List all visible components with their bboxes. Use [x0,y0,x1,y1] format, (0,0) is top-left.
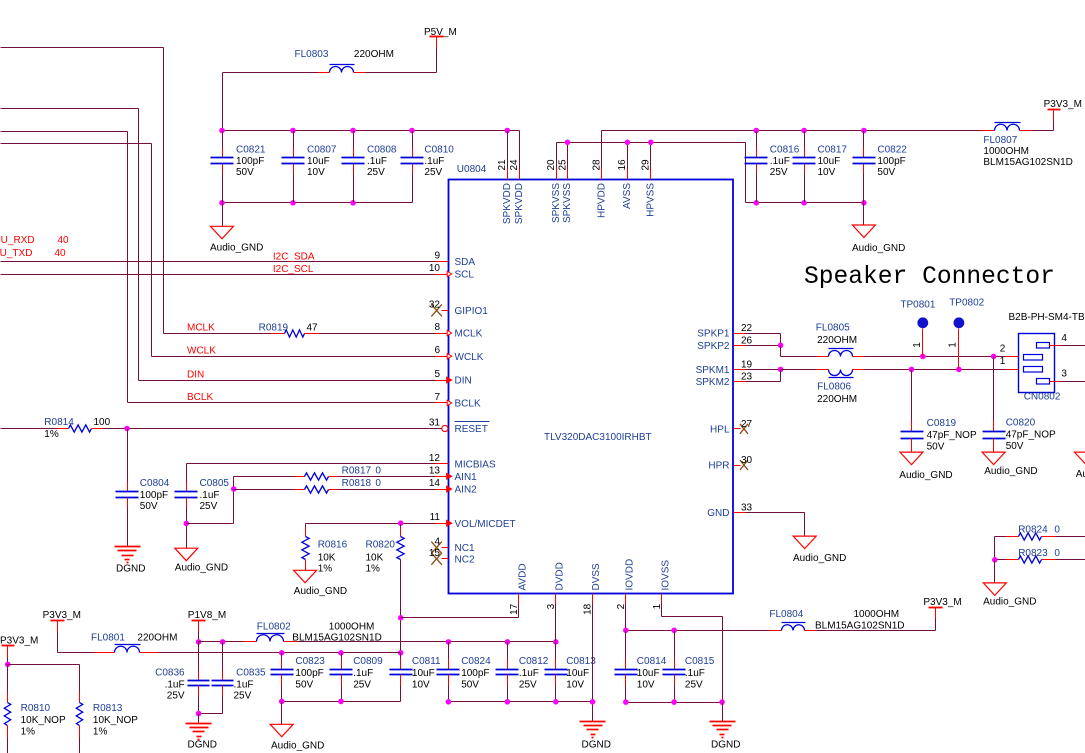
svg-text:24: 24 [509,159,520,171]
wire DIN [139,380,436,382]
svg-text:Audio_GND: Audio_GND [210,242,263,253]
svg-text:I2C_SDA: I2C_SDA [273,252,315,263]
wire MCLK to R0819 [164,333,285,335]
svg-text:40: 40 [55,248,67,259]
capacitor C0805 [175,478,230,549]
wire AVDD cap ground bus [279,699,401,725]
svg-text:.1uF: .1uF [234,679,254,690]
resistor R0819 47 [259,323,318,338]
svg-text:Audio_GND: Audio_GND [852,243,905,254]
svg-text:25: 25 [557,159,568,171]
pin 31 RESET (U0804 left) [429,418,490,436]
pin 2 IOVDD (U0804 bottom) [616,559,635,610]
svg-text:HPL: HPL [710,424,730,435]
ground DGND (IOVSS) [710,722,741,751]
svg-text:10V: 10V [412,680,430,691]
ferrite bead FL0801 [91,633,177,653]
svg-text:C0822: C0822 [877,145,907,156]
svg-text:TLV320DAC3100IRHBT: TLV320DAC3100IRHBT [544,432,652,443]
svg-text:1000OHM: 1000OHM [854,609,900,620]
power symbol P3V3_M (top right) [1044,99,1082,122]
capacitor C0822 [853,131,908,203]
svg-text:10K: 10K [366,553,384,564]
svg-text:C0804: C0804 [140,478,170,489]
svg-text:R0817: R0817 [342,466,372,477]
svg-text:SDA: SDA [455,257,476,268]
svg-text:R0818: R0818 [342,478,372,489]
ground Audio_GND (pin 33) [793,536,846,564]
svg-text:FL0804: FL0804 [769,609,803,620]
pin 32 GIPIO1 (U0804 left) [429,299,488,317]
svg-text:SPKM1: SPKM1 [696,365,730,376]
svg-text:100pF: 100pF [236,156,264,167]
svg-text:P3V3_M: P3V3_M [43,610,81,621]
svg-text:C0813: C0813 [566,656,596,667]
svg-text:1: 1 [912,342,923,348]
junction dots VSS rail [565,140,654,146]
net label DIN [187,369,204,380]
wire IOVSS pin 1 routing [662,604,723,703]
pin 19 SPKM1 (U0804 right) [696,359,753,376]
svg-text:32: 32 [429,299,441,310]
svg-text:R0823: R0823 [1018,548,1048,559]
capacitor C0810 [401,131,455,203]
svg-text:25V: 25V [200,501,218,512]
wire MICBIAS [187,464,436,482]
wire DVDD 1V8 rail [284,639,559,645]
wire P5V rail [223,73,437,131]
pin 13 AIN1 (U0804 left) [429,465,477,483]
svg-text:FL0803: FL0803 [295,49,329,60]
svg-text:23: 23 [741,372,753,383]
wire MCLK from off-page [1,48,164,334]
svg-text:50V: 50V [140,501,158,512]
wire P1V8 to FL0802 [196,632,257,645]
svg-text:FL0801: FL0801 [91,633,125,644]
wire AIN2 left [234,489,305,491]
wire P3V3 to FL0801 [58,632,115,653]
svg-text:WCLK: WCLK [187,346,216,357]
svg-text:GIPIO1: GIPIO1 [455,306,489,317]
svg-text:1000OHM: 1000OHM [329,622,375,633]
svg-text:FL0805: FL0805 [816,323,850,334]
svg-text:Audio_GND: Audio_GND [271,740,324,751]
svg-text:25V: 25V [353,680,371,691]
svg-text:30: 30 [741,455,753,466]
svg-text:R0824: R0824 [1018,525,1048,536]
svg-text:19: 19 [741,359,753,370]
svg-text:C0812: C0812 [519,656,549,667]
pin 20 SPKVSS (U0804 top) [546,143,562,224]
capacitor C0819 47pF_NOP [901,370,977,453]
svg-text:MCLK: MCLK [455,329,483,340]
wire FL0807 to P3V3_M [1032,122,1054,131]
op-amp U0804 TLV320DAC3100IRHBT body [449,164,734,594]
svg-text:50V: 50V [461,680,479,691]
resistor R0818 0 [305,478,382,493]
svg-text:SPKP1: SPKP1 [697,329,730,340]
wire DVSS pin 18 lead [592,604,594,722]
ground Audio_GND (C0805) [175,548,228,573]
svg-text:SPKP2: SPKP2 [697,341,730,352]
svg-text:C0817: C0817 [818,145,848,156]
wire AIN1 left [234,476,305,478]
pin 24 SPKVDD (U0804 top) [509,131,525,225]
svg-text:DVSS: DVSS [591,563,602,591]
svg-text:220OHM: 220OHM [137,633,177,644]
svg-text:C0819: C0819 [927,418,957,429]
svg-text:220OHM: 220OHM [817,335,857,346]
wire AVDD pin 17 routing [401,604,519,618]
wire C0836/C0835 ground bus [196,711,223,724]
pin 4 CN0802 wire [1050,333,1085,346]
capacitor C0835 [212,642,267,714]
svg-text:HPR: HPR [708,461,729,472]
svg-text:RESET: RESET [455,424,488,435]
svg-text:DVDD: DVDD [554,562,565,590]
resistor R0817 0 [305,466,382,481]
wire AVDD 3V3 rail [140,650,401,656]
svg-text:.1uF: .1uF [519,668,539,679]
power symbol P1V8_M [188,610,226,632]
pin 18 DVSS (U0804 bottom) [583,563,602,615]
svg-text:100pF: 100pF [140,490,168,501]
ground Audio_GND (R0816) [294,570,348,597]
wire R0817 to pin 13 [329,476,436,478]
svg-text:29: 29 [641,159,652,171]
svg-text:47pF_NOP: 47pF_NOP [1006,429,1056,440]
svg-text:GND: GND [707,508,729,519]
svg-text:C0807: C0807 [307,145,337,156]
svg-text:15: 15 [429,548,441,559]
svg-text:20: 20 [546,159,557,171]
svg-text:10K_NOP: 10K_NOP [93,715,138,726]
pin 16 AVSS (U0804 top) [617,143,633,209]
wire R0824 net [995,537,1085,560]
capacitor C0804 [116,429,170,547]
svg-text:C0824: C0824 [461,656,491,667]
svg-text:C0823: C0823 [295,656,325,667]
svg-text:C0815: C0815 [685,656,715,667]
wire WCLK [152,356,436,358]
wire R0819 to pin 8 [305,333,436,335]
wire DVDD pin 3 lead [555,604,557,642]
pin 15 NC2 (U0804 left) [429,548,475,566]
svg-text:R0810: R0810 [21,703,51,714]
wire WCLK from off-page [1,144,152,357]
svg-text:P1V8_M: P1V8_M [188,610,226,621]
wire R0814 to pin 31 [92,426,442,432]
wire VOL/MICDET [306,520,436,536]
capacitor C0817 [793,131,848,203]
svg-text:25V: 25V [519,680,537,691]
svg-text:R0814: R0814 [44,417,74,428]
svg-text:47pF_NOP: 47pF_NOP [927,430,977,441]
capacitor C0816 [745,131,800,203]
svg-text:BLM15AG102SN1D: BLM15AG102SN1D [815,620,905,631]
resistor R0814 100 1% [44,417,110,440]
capacitor C0813 [545,642,597,702]
wire FL0804 to P3V3_M [817,619,936,631]
svg-text:HPVDD: HPVDD [596,183,607,218]
svg-text:16: 16 [617,159,628,171]
pin 26 SPKP2 (U0804 right) [697,335,752,352]
resistor R0810 10K_NOP 1% [4,692,66,753]
resistor R0820 10K 1% [366,537,405,575]
svg-text:25V: 25V [424,167,442,178]
svg-text:AVDD: AVDD [518,563,529,590]
svg-text:AVSS: AVSS [622,183,633,209]
capacitor C0811 [390,653,442,702]
resistor R0813 10K_NOP 1% [76,692,138,753]
pin 14 AIN2 (U0804 left) [429,478,477,496]
svg-text:25V: 25V [685,680,703,691]
capacitor C0824 [437,642,492,702]
svg-text:.1uF: .1uF [424,156,444,167]
capacitor C0812 [496,642,549,702]
capacitor C0807 [282,131,337,203]
ferrite bead FL0802 [257,622,382,644]
pin 7 BCLK (U0804 left) [434,392,481,410]
svg-text:27: 27 [741,419,753,430]
svg-text:12: 12 [429,453,441,464]
net label CPU_RXD [0,235,69,246]
svg-text:R0816: R0816 [318,539,348,550]
power symbol P3V3_M (bottom) [923,597,961,619]
wire GND pin 33 routing [746,513,805,537]
capacitor C0809 [330,653,384,702]
svg-text:U0804: U0804 [457,164,487,175]
pin 17 AVDD (U0804 bottom) [509,563,528,614]
svg-text:10V: 10V [566,680,584,691]
wire BCLK [128,402,436,404]
svg-text:.1uF: .1uF [200,490,220,501]
svg-text:0: 0 [375,478,381,489]
ferrite bead FL0807 [981,123,1073,169]
svg-text:10V: 10V [818,167,836,178]
net label MCLK [187,323,215,334]
wire SPKVDD bottom rail [223,202,413,204]
capacitor C0814 [615,631,667,703]
pin 3 CN0802 wire [1050,369,1085,382]
svg-text:SPKVDD: SPKVDD [502,183,513,224]
svg-text:P3V3_M: P3V3_M [923,597,961,608]
svg-text:21: 21 [497,159,508,171]
wire DGND bus (DVDD caps) [446,699,596,705]
svg-text:SPKM2: SPKM2 [696,377,730,388]
svg-text:P3V3_M: P3V3_M [1044,99,1082,110]
wire I2C_SDA [1,252,436,263]
connector CN0802 B2B-PH-SM4-TBT [1009,312,1085,403]
capacitor C0820 47pF_NOP [983,357,1057,453]
svg-text:AIN2: AIN2 [455,485,478,496]
svg-text:33: 33 [741,503,753,514]
pin 27 HPL (U0804 right) [710,419,753,436]
svg-text:10K_NOP: 10K_NOP [21,715,66,726]
svg-text:10V: 10V [307,167,325,178]
svg-text:Audio_GND: Audio_GND [899,470,952,481]
svg-text:FL0802: FL0802 [257,622,291,633]
power symbol P3V3_M (FL0801) [43,610,81,632]
pin 1 IOVSS (U0804 bottom) [652,560,671,610]
ground Audio_GND (C0819) [899,452,952,481]
pin 22 SPKP1 (U0804 right) [697,323,752,340]
pin 11 VOL/MICDET (U0804 left) [430,512,516,530]
svg-text:DGND: DGND [582,740,611,751]
svg-text:1: 1 [947,342,958,348]
pin 3 DVDD (U0804 bottom) [546,562,565,609]
svg-text:C0821: C0821 [236,145,266,156]
pin 33 GND (U0804 right) [707,503,752,520]
svg-text:47: 47 [307,323,319,334]
test point TP0802 [947,298,984,370]
capacitor C0821 [211,131,266,203]
power symbol P3V3_M (far left) [0,636,38,658]
svg-text:10V: 10V [637,680,655,691]
svg-text:.1uF: .1uF [353,668,373,679]
svg-text:BCLK: BCLK [455,399,481,410]
svg-text:40: 40 [58,235,70,246]
svg-text:10uF: 10uF [566,668,589,679]
ground Audio_GND (right cap bank) [852,203,905,255]
ferrite bead FL0806 [817,370,865,406]
wire HPVDD rail [602,130,981,132]
svg-text:FL0806: FL0806 [817,382,851,393]
svg-text:VOL/MICDET: VOL/MICDET [455,519,516,530]
svg-text:DGND: DGND [711,740,740,751]
wire R0823 net [992,557,1085,583]
resistor R0816 10K 1% [302,537,348,575]
wire BCLK from off-page [1,132,128,403]
svg-text:1: 1 [1000,356,1006,367]
wire RESET from off-page [1,428,69,430]
svg-text:IOVSS: IOVSS [661,560,672,591]
ground DGND (C0836) [186,724,217,751]
net label WCLK [187,346,216,357]
svg-text:AIN1: AIN1 [455,472,478,483]
svg-text:.1uF: .1uF [165,679,185,690]
wire P3V3 left branch [5,658,80,692]
svg-text:Audio_GND: Audio_GND [793,553,846,564]
svg-text:0: 0 [1054,548,1060,559]
svg-text:C0820: C0820 [1006,418,1036,429]
pin 25 SPKVSS (U0804 top) [557,143,573,224]
svg-text:10uF: 10uF [637,668,660,679]
ground Audio_GND (R0823/R0824) [983,583,1036,607]
svg-text:Audio_GND: Audio_GND [983,596,1036,607]
svg-text:Speaker Connector: Speaker Connector [804,264,1055,291]
wire AIN branch [187,477,237,524]
pin 30 HPR (U0804 right) [708,455,752,472]
pin 12 MICBIAS (U0804 left) [429,453,496,471]
svg-text:28: 28 [592,159,603,171]
wire right cap bottom rail [746,202,864,204]
svg-text:SPKVSS: SPKVSS [551,183,562,223]
svg-text:CN0802: CN0802 [1024,392,1061,403]
svg-text:.1uF: .1uF [770,156,790,167]
pin 21 SPKVDD (U0804 top) [497,131,513,225]
resistor R0824 0 [1018,525,1060,540]
ferrite bead FL0803 [295,49,394,73]
test point TP0801 [900,300,935,357]
svg-text:10uF: 10uF [412,668,435,679]
ground Audio_GND (right edge, clipped) [1075,452,1085,480]
svg-text:C0816: C0816 [770,145,800,156]
svg-text:0: 0 [375,466,381,477]
svg-text:FL0807: FL0807 [983,135,1017,146]
pin 29 HPVSS (U0804 top) [641,143,657,217]
ground Audio_GND (AVDD caps) [270,724,324,751]
svg-text:7: 7 [434,392,440,403]
capacitor C0823 [271,653,326,702]
svg-text:220OHM: 220OHM [354,49,394,60]
ferrite bead FL0805 [816,323,865,357]
svg-text:C0811: C0811 [412,656,441,667]
svg-text:R0813: R0813 [93,703,123,714]
svg-text:100pF: 100pF [461,668,489,679]
ferrite bead FL0804 [769,609,904,631]
svg-text:5: 5 [434,369,440,380]
svg-text:10K: 10K [318,553,336,564]
svg-text:3: 3 [1061,369,1067,380]
capacitor C0808 [342,131,397,203]
svg-text:SPKVSS: SPKVSS [562,183,573,223]
svg-text:4: 4 [434,537,440,548]
svg-text:C0808: C0808 [367,145,397,156]
svg-text:Audio_GND: Audio_GND [1076,469,1085,480]
svg-text:50V: 50V [1006,441,1024,452]
svg-text:SPKVDD: SPKVDD [514,183,525,224]
capacitor C0836 [155,642,209,714]
wire R0820 to AVDD rail [398,560,404,656]
svg-text:8: 8 [434,322,440,333]
svg-text:DIN: DIN [455,376,472,387]
wire SPKVSS/AVSS/HPVSS rail [557,143,746,203]
svg-text:C0805: C0805 [200,478,230,489]
pin 4 NC1 (U0804 left) [431,537,475,555]
svg-text:SCL: SCL [455,270,475,281]
svg-text:NC2: NC2 [455,554,475,565]
ground Audio_GND (C0820) [982,452,1037,477]
pin 5 DIN (U0804 left) [434,369,471,387]
wire SPKM line to connector [865,367,1006,373]
svg-text:100pF: 100pF [877,156,905,167]
svg-text:1%: 1% [318,564,333,575]
svg-text:1%: 1% [366,564,381,575]
junction dots bottom rail [219,200,356,206]
net label BCLK [187,392,213,403]
wire SPKVDD top rail [223,130,520,132]
pin 23 SPKM2 (U0804 right) [696,372,753,389]
svg-text:0: 0 [1054,525,1060,536]
svg-text:Audio_GND: Audio_GND [175,563,228,574]
svg-text:.1uF: .1uF [685,668,705,679]
svg-text:31: 31 [429,418,441,429]
capacitor C0815 [663,631,715,703]
svg-text:PU_RXD: PU_RXD [0,235,35,246]
wire SPKP line to connector [865,354,1006,360]
wire R0816 to ground [305,560,307,571]
svg-text:25V: 25V [367,167,385,178]
svg-text:DIN: DIN [187,369,204,380]
svg-text:BLM15AG102SN1D: BLM15AG102SN1D [983,157,1073,168]
svg-text:R0819: R0819 [259,323,289,334]
svg-text:50V: 50V [877,167,895,178]
svg-text:25V: 25V [167,691,185,702]
svg-text:6: 6 [434,345,440,356]
svg-text:11: 11 [430,512,441,523]
svg-text:TP0801: TP0801 [900,300,935,311]
